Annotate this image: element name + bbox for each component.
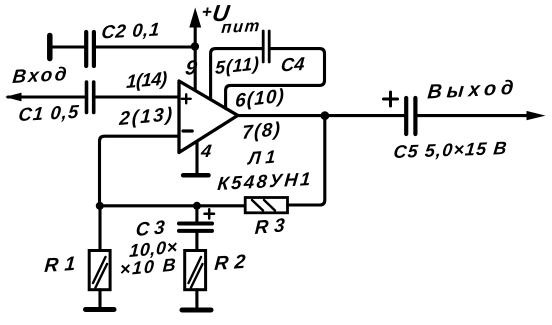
resistor R2 [185,251,206,290]
svg-text:С2 0,1: С2 0,1 [101,18,161,42]
svg-text:1(14): 1(14) [126,67,168,92]
wire: C4 to pin 6(10) loop [226,49,325,109]
wire: input line left segment [8,95,85,98]
wire: C2 branch end terminal bar [47,36,53,59]
resistor R1 [89,251,110,290]
wire: C5 to output arrow [418,114,530,117]
node B: output junction dot [321,111,330,120]
wire: C1 to op-amp noninverting input [96,95,180,98]
wire: pin 5(11) stub up and to C4 [211,49,262,99]
resistor R3 [245,198,287,213]
node A: power junction dot [191,42,199,50]
svg-text:С5 5,0×15 В: С5 5,0×15 В [393,138,508,162]
plus sign inside op-amp [182,98,191,100]
wire: C3 to R2 [195,233,198,251]
wire: C3 top stub [195,206,198,222]
ground (R2) [182,308,211,313]
ground (R1) [86,307,115,312]
svg-text:Выход: Выход [427,77,515,104]
wire: C2 line left segment [50,45,85,48]
minus sign inside op-amp [183,129,192,132]
wire: inverting input line [100,136,180,206]
plus sign at C5 [384,98,398,101]
plus sign at C3 [205,213,215,216]
svg-text:пит: пит [221,16,261,37]
power +Upit arrow [194,22,197,92]
node D: junction dot at C3 [193,202,201,210]
wire: feedback node horizontal [100,204,246,207]
wire: C2 to power junction [96,45,193,48]
ground (op-amp) [183,173,208,178]
input arrow [5,93,22,102]
wire: pin 4 ground stub [195,142,198,174]
capacitor C1 [85,82,89,113]
wire: output from pin 7(8) [238,114,404,117]
wire: R1 top stub [98,206,101,251]
wire: R1 bottom stub [98,290,101,307]
node C: junction dot at R1 [96,202,104,210]
output arrow [527,111,546,120]
wire: R2 bottom stub [195,290,198,307]
svg-text:С4: С4 [280,53,306,76]
capacitor C4 [262,31,265,62]
op-amp U1 triangle [179,81,238,153]
wire: R3 to output feedback [288,116,325,205]
capacitor C3 [179,222,212,226]
capacitor C5 [404,98,408,134]
capacitor C2 [84,32,88,66]
